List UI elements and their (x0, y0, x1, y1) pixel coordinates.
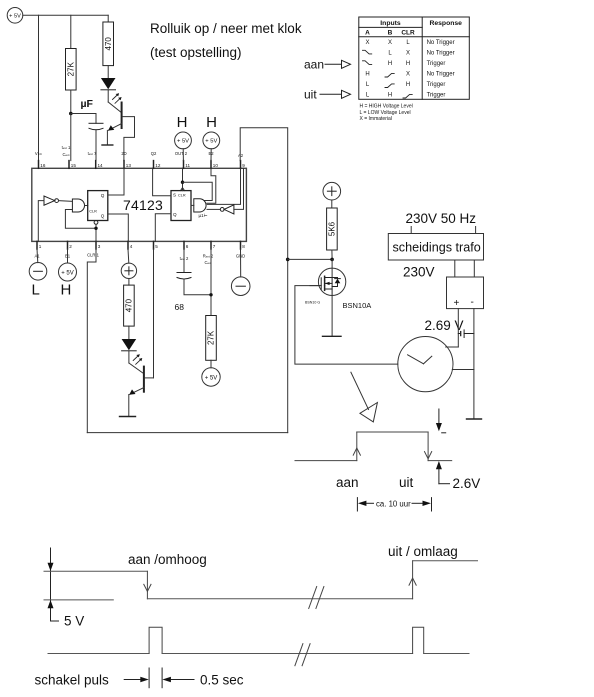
dimension 5V vertical (48, 548, 59, 621)
flip-flop FF1 (left one-shot) (88, 191, 108, 221)
svg-text:BSN10A: BSN10A (343, 301, 372, 310)
svg-text:Cext: Cext (62, 152, 69, 157)
wire inverter2 input (234, 168, 244, 209)
svg-text:No Trigger: No Trigger (427, 72, 455, 78)
capacitor C2 68 (177, 273, 191, 280)
junction node CLR1 (94, 227, 97, 230)
wire node to pin15 (70, 114, 72, 161)
svg-text:Q2: Q2 (151, 151, 157, 156)
svg-text:470: 470 (104, 37, 113, 51)
svg-text:2.69 V: 2.69 V (425, 318, 464, 333)
battery 2.69V (458, 330, 474, 338)
resistor R5 5K6 (327, 208, 338, 250)
wire pin3 CLR1 loop down (87, 249, 96, 433)
flip-flop FF2 (right one-shot) (171, 191, 191, 221)
wire FF1 CLR to pin3 (95, 224, 97, 241)
wire AND lower input feedback (65, 210, 96, 229)
wire CLR1 loop bottom (87, 432, 287, 434)
svg-text:A2: A2 (238, 153, 244, 158)
svg-text:BSN10 G: BSN10 G (305, 301, 320, 305)
svg-text:uit: uit (304, 88, 317, 102)
channel bar (324, 276, 326, 280)
break marks pulse baseline (295, 644, 310, 666)
wire trafo to rectifier (454, 260, 456, 277)
uit pointer (304, 88, 351, 102)
truth table header text (365, 20, 462, 37)
svg-text:Q: Q (173, 212, 177, 217)
svg-text:1: 1 (39, 244, 42, 249)
rising edge uit with open arrow (409, 561, 416, 599)
IC top pin ticks (39, 161, 241, 169)
IC top pin names (35, 145, 244, 158)
wire R4 to +5V (210, 360, 212, 368)
source stub (325, 289, 333, 296)
svg-text:+ 5V: + 5V (205, 375, 218, 381)
svg-text:5: 5 (155, 244, 158, 249)
label + - (454, 297, 474, 309)
wire LED2 cathode down (128, 351, 130, 363)
svg-text:B: B (388, 30, 393, 37)
svg-text:H: H (177, 114, 188, 131)
source circle L (minus) (29, 263, 47, 281)
svg-text:Trigger: Trigger (427, 82, 446, 88)
clock M1 (398, 337, 453, 392)
signal low line (147, 598, 412, 600)
wire R5 to drain node (331, 250, 333, 259)
svg-text:µF: µF (81, 98, 94, 110)
wire C2 to node pin7 (184, 279, 211, 295)
svg-text:5 V: 5 V (64, 614, 84, 629)
table footnotes (360, 104, 413, 123)
svg-text:230V 50 Hz: 230V 50 Hz (406, 211, 477, 226)
svg-text:14: 14 (98, 163, 104, 168)
svg-text:9: 9 (242, 163, 245, 168)
wire +5V to pin10 (210, 149, 212, 161)
FF1 labels (89, 193, 105, 219)
wire pin1 to L source (36, 249, 39, 263)
drain stub (325, 277, 333, 279)
svg-text:470: 470 (125, 298, 134, 312)
FF2 labels (173, 193, 186, 218)
svg-text:13: 13 (126, 163, 132, 168)
svg-text:L = LOW Voltage Level: L = LOW Voltage Level (360, 110, 411, 116)
svg-text:4: 4 (130, 244, 133, 249)
resistor R4 27K (206, 316, 217, 361)
svg-text:5K6: 5K6 (328, 221, 337, 236)
clock output waveform (295, 432, 452, 461)
wire +5V rail top (23, 14, 108, 16)
IC top pin numbers (40, 163, 245, 168)
FF2 trigger notch (181, 188, 185, 191)
svg-text:CLR 1: CLR 1 (87, 253, 100, 258)
wave low right (428, 460, 452, 462)
wire node to AND2 upper path (183, 182, 213, 200)
svg-text:2D: 2D (121, 151, 126, 156)
annotation arrow to waveform (351, 372, 378, 422)
wire FF1 Qbar to pin4 (108, 214, 129, 241)
signal low reference (44, 599, 113, 601)
svg-text:text 7: text 7 (88, 151, 97, 156)
svg-text:Q: Q (101, 193, 105, 198)
svg-text:Trigger: Trigger (427, 61, 446, 67)
svg-text:X: X (406, 51, 410, 57)
svg-text:15: 15 (71, 163, 77, 168)
mains ticks (410, 227, 412, 234)
MOSFET T1 BSN10A (310, 268, 346, 295)
svg-text:X: X (388, 40, 392, 46)
svg-text:Inputs: Inputs (380, 20, 401, 27)
svg-text:Rext 2: Rext 2 (203, 254, 214, 259)
wire pin11 to FF2 trigger (182, 168, 184, 190)
wire +5V to pin11 (182, 149, 184, 161)
svg-text:H: H (406, 82, 410, 88)
title text (150, 21, 302, 60)
junction node pin11 (181, 181, 184, 184)
junction node drain (330, 258, 334, 262)
wire CLR1 loop right riser (287, 259, 289, 432)
wire rectifier - down (473, 309, 475, 419)
IC U1 74123 body (32, 168, 247, 241)
wire R1 bottom to node (70, 90, 72, 114)
svg-text:A: A (365, 30, 370, 37)
ground (Q2 emitter) (120, 416, 136, 418)
svg-text:H: H (206, 114, 217, 131)
svg-text:H: H (365, 72, 369, 78)
wave high (357, 431, 428, 433)
svg-text:VCC: VCC (35, 151, 43, 156)
LED D2 light arrows (133, 354, 142, 364)
wire MOSFET source to ground (331, 296, 333, 337)
svg-text:12: 12 (155, 163, 161, 168)
test point circle + (5K6 top) (323, 182, 341, 200)
Q1 emitter with arrow (109, 124, 122, 131)
wire pin10 to AND2 (207, 168, 216, 203)
LED D2 (122, 339, 137, 351)
source circle GND (minus) (231, 277, 250, 296)
ground (MOSFET source) (323, 335, 342, 337)
dimension ca. 10 uur (357, 498, 431, 511)
wire LED1 to Q1 base (diagonal) (108, 102, 121, 113)
wire rail to R1 top (70, 15, 72, 48)
resistor R2 470 (103, 22, 114, 66)
wire pin5 Q2out down to collector (153, 249, 155, 378)
wire pin6 to C2 (183, 249, 185, 273)
svg-text:+ 5V: + 5V (177, 139, 189, 145)
source circle B1 +5V (59, 263, 77, 281)
aan pointer (304, 58, 351, 72)
schakel pulse 1 (149, 627, 162, 653)
gate bar (320, 278, 322, 290)
svg-text:74123: 74123 (123, 197, 163, 213)
wire gate to clock (295, 286, 398, 365)
svg-text:aan: aan (336, 475, 359, 490)
LED D1 (101, 78, 116, 90)
transformer box scheidings trafo (388, 234, 483, 261)
IC bottom pin ticks (37, 241, 241, 249)
source circle +5V (pin11) (175, 132, 192, 149)
svg-text:text 1: text 1 (62, 145, 71, 150)
dimension 2.6V upper arrow (436, 409, 446, 433)
svg-text:S: S (173, 193, 176, 198)
wire node to capacitor C1 (71, 114, 96, 124)
svg-text:2: 2 (69, 244, 72, 249)
wire inverter2 out to AND2 (207, 208, 220, 210)
wire drain node to MOSFET (331, 259, 333, 277)
wire pin7 down (210, 249, 212, 316)
wire LED2 to Q2 base (129, 363, 144, 374)
falling edge with open arrow (427, 432, 429, 461)
Q1 collector (123, 117, 135, 161)
truth table rows (365, 40, 410, 99)
svg-text:(test opstelling): (test opstelling) (150, 45, 242, 60)
capacitor C1 µF (89, 123, 103, 130)
rectifier box (447, 277, 484, 309)
FF1 CLR bubble (94, 221, 98, 225)
svg-text:+: + (454, 298, 460, 309)
H labels above IC (177, 114, 217, 131)
svg-text:Q: Q (101, 214, 105, 219)
wire inverter out to AND input (59, 200, 73, 203)
wire to clock top terminal (446, 346, 459, 348)
svg-text:uit / omlaag: uit / omlaag (388, 544, 458, 559)
transistor Q1 (108, 103, 135, 161)
svg-text:2.6V: 2.6V (453, 476, 481, 491)
wire clock right terminal (452, 369, 474, 371)
signal high right (413, 560, 478, 562)
svg-text:ca. 10 uur: ca. 10 uur (376, 500, 411, 509)
wire pin8 GND down (240, 249, 242, 277)
svg-text:L: L (32, 282, 40, 299)
svg-text:H: H (61, 282, 72, 299)
svg-text:aan /omhoog: aan /omhoog (128, 552, 207, 567)
wave low left (295, 460, 357, 462)
test point circle + (121, 263, 136, 278)
AND gate U1c (right) (194, 199, 206, 212)
transistor Q2 (129, 367, 153, 395)
Q2 emitter with arrow (130, 388, 144, 395)
svg-text:X: X (406, 72, 410, 78)
svg-text:-: - (471, 297, 474, 308)
svg-text:Rolluik op / neer met klok: Rolluik op / neer met klok (150, 21, 302, 36)
body diode (335, 279, 341, 284)
svg-text:scheidings trafo: scheidings trafo (393, 241, 481, 255)
truth table frame (359, 17, 470, 99)
falling edge glyphs (363, 50, 413, 98)
ground (Q1 emitter) (102, 144, 113, 146)
wire AND output to FF1 (85, 205, 88, 207)
resistor R3 470 (124, 285, 135, 326)
junction node Rext2 (209, 293, 212, 296)
clock hands (408, 355, 432, 364)
svg-text:µ1⊢: µ1⊢ (199, 212, 208, 218)
wire pin1 A1 to inverter input (38, 201, 44, 242)
svg-text:No Trigger: No Trigger (427, 40, 455, 46)
break marks signal (309, 587, 324, 609)
junction node Rext/Cext (69, 112, 73, 116)
svg-text:230V: 230V (403, 265, 435, 280)
wire pin4 to test point (127, 249, 130, 263)
dimension 2.6V lower arrow (436, 461, 450, 484)
svg-text:X: X (365, 40, 369, 46)
inverter U1a (left) (44, 196, 58, 205)
wire FF2 Qbar to pin5 (155, 214, 171, 242)
wire rail to pin16 Vcc (38, 15, 40, 160)
AND gate U1b (left) (72, 199, 84, 212)
pulse baseline right (424, 653, 469, 655)
wire R2 to LED1 (107, 66, 109, 78)
svg-text:No Trigger: No Trigger (427, 51, 455, 57)
svg-text:OUT 2: OUT 2 (175, 151, 188, 156)
svg-text:H: H (406, 61, 410, 67)
svg-text:H = HIGH Voltage Level: H = HIGH Voltage Level (360, 104, 413, 110)
source circle +5V (pin7) (202, 368, 220, 386)
wire rail to R2 top (107, 15, 109, 22)
svg-text:27K: 27K (207, 330, 216, 345)
wire FF1 Q to pin13 (108, 168, 124, 195)
svg-text:+ 5V: + 5V (61, 270, 74, 276)
svg-text:aan: aan (304, 58, 324, 72)
ground (rectifier -) (467, 418, 482, 420)
svg-text:11: 11 (185, 163, 190, 168)
wire pin9 A2 up and over (240, 128, 288, 260)
svg-text:Trigger: Trigger (427, 93, 446, 99)
svg-text:CLR: CLR (178, 194, 186, 198)
falling edge aan with open arrow (144, 571, 151, 599)
svg-text:7: 7 (213, 244, 216, 249)
schakel pulse 2 (413, 627, 424, 653)
svg-text:CLR: CLR (401, 30, 415, 37)
wire Q1 emitter to ground (106, 130, 108, 145)
svg-text:0.5 sec: 0.5 sec (200, 673, 244, 688)
svg-text:3: 3 (98, 244, 101, 249)
svg-text:6: 6 (186, 244, 189, 249)
wire C1 bottom to pin14 (95, 130, 97, 161)
dimension 0.5 sec (124, 668, 194, 688)
svg-text:68: 68 (175, 302, 185, 312)
svg-text:H: H (388, 93, 392, 99)
svg-text:CLR: CLR (89, 210, 97, 214)
LED D1 light arrows (113, 93, 122, 103)
IC bottom pin numbers (39, 244, 246, 249)
gate lead (310, 285, 321, 287)
body stub with arrow (325, 282, 333, 284)
wire Q2 emitter to ground (128, 395, 130, 417)
IC bottom pin names (34, 253, 245, 266)
wire test point to R3 (128, 279, 130, 286)
svg-text:schakel puls: schakel puls (35, 673, 110, 688)
svg-text:16: 16 (40, 163, 46, 168)
svg-text:8: 8 (242, 244, 245, 249)
wire rail to drain node (288, 258, 332, 260)
+5V supply circle top-left (7, 8, 23, 24)
svg-text:X = Immaterial: X = Immaterial (360, 116, 392, 122)
resistor R1 27K (66, 49, 77, 91)
svg-text:+ 5V: + 5V (9, 14, 21, 20)
svg-text:Response: Response (429, 20, 462, 27)
signal wave high left (44, 570, 147, 572)
pulse baseline middle (162, 653, 413, 655)
svg-text:uit: uit (399, 475, 414, 490)
svg-text:+ 5V: + 5V (205, 139, 217, 145)
wire FF2 Q to pin12 (153, 168, 171, 196)
svg-text:27K: 27K (67, 61, 76, 76)
rising edge with open arrow (356, 432, 358, 461)
svg-text:H: H (388, 61, 392, 67)
wire R3 to LED2 (128, 326, 130, 339)
svg-text:10: 10 (213, 163, 219, 168)
source circle +5V (pin10) (203, 132, 220, 149)
wire FF2 to AND2 (191, 204, 194, 206)
inverter U1d (right) (220, 205, 234, 214)
wire LED1 cathode down (107, 90, 109, 102)
wire pin9 to AND2 input (207, 168, 240, 204)
junction node A2/drain rail (286, 258, 290, 262)
pulse waveform baseline left (48, 653, 149, 655)
wire rectifier + down (457, 309, 459, 347)
wire pin2 to +5V (67, 249, 69, 263)
Q2 collector (145, 377, 154, 379)
wire to R5 (331, 200, 333, 208)
